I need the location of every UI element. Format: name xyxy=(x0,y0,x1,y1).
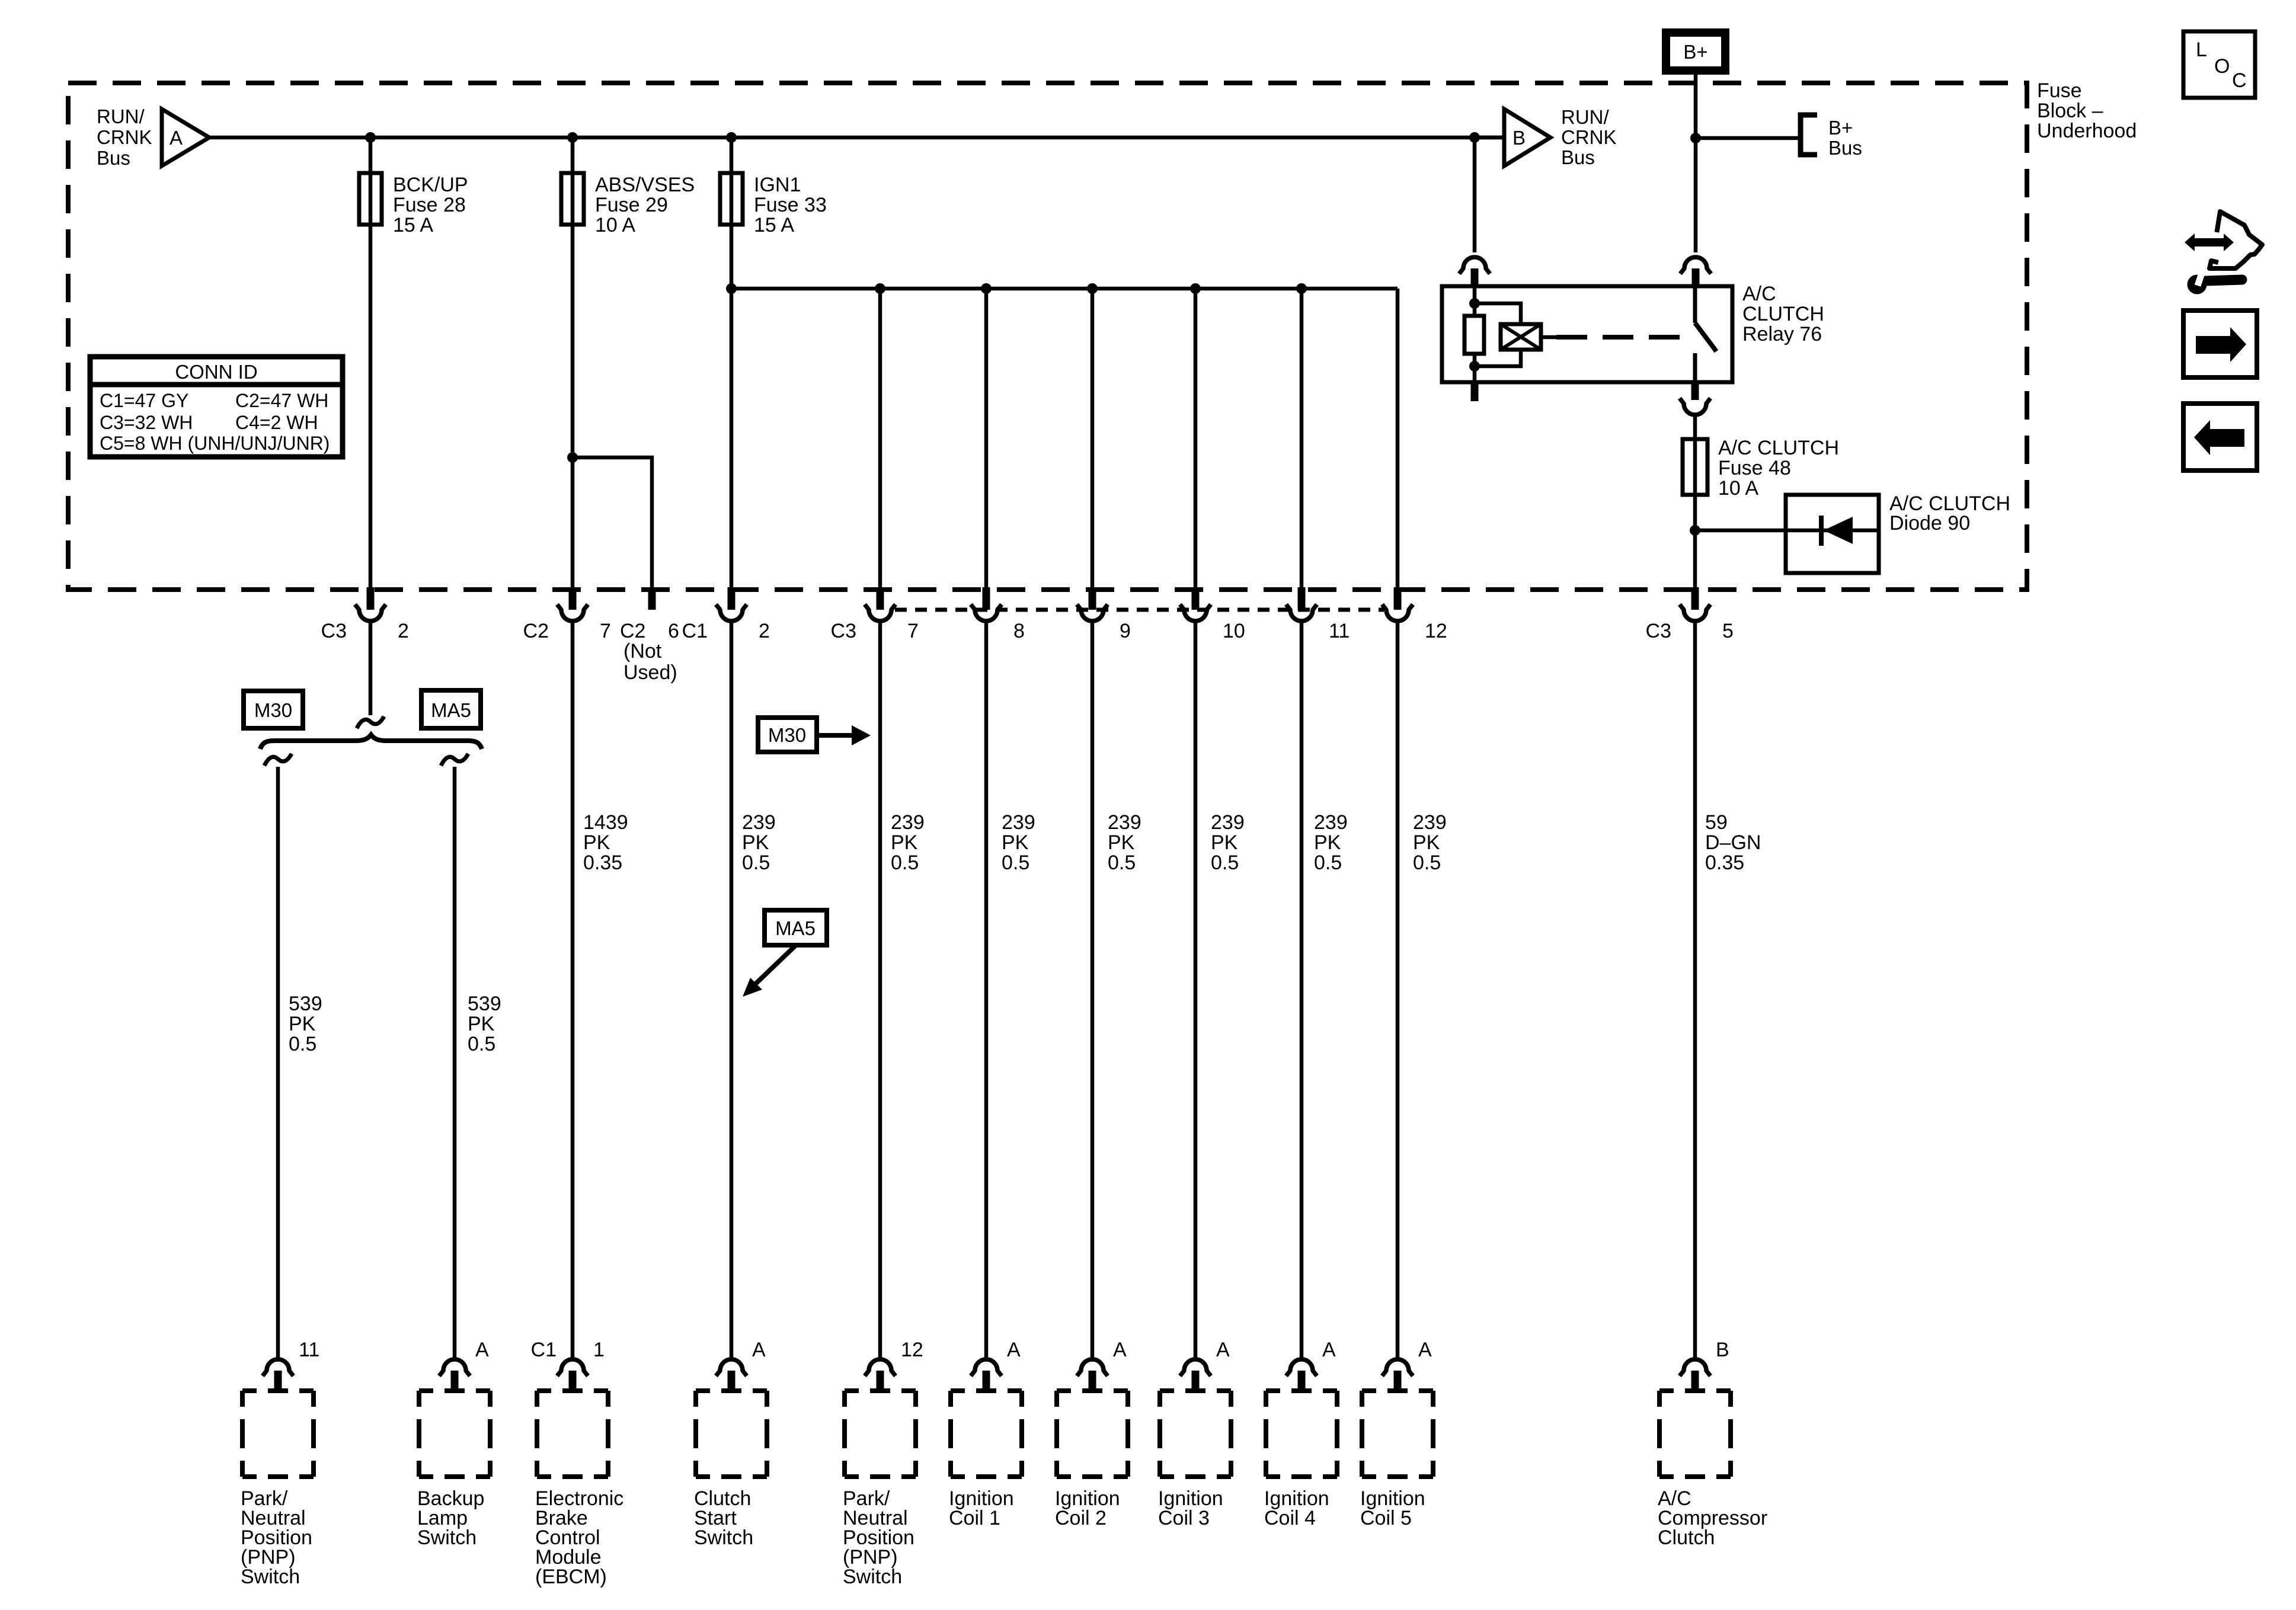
svg-text:O: O xyxy=(2214,55,2230,78)
svg-text:A: A xyxy=(752,1339,766,1361)
harness tag MA5 (left) xyxy=(421,690,481,728)
connector bus: C3 dashed link pins 7-12 xyxy=(895,608,1384,612)
svg-text:10 A: 10 A xyxy=(1718,477,1758,500)
connector C3-7 at fuse block edge xyxy=(831,587,919,642)
component: Ignition Coil 3 (pin A) xyxy=(1158,1339,1231,1529)
connector pin 12 at fuse block edge xyxy=(1382,587,1447,642)
node B: RUN/CRNK Bus tag (triangle B) xyxy=(1475,106,1617,168)
wire break: left branch xyxy=(264,754,292,766)
svg-text:L: L xyxy=(2196,39,2207,61)
svg-text:Coil 2: Coil 2 xyxy=(1055,1507,1107,1529)
svg-text:7: 7 xyxy=(907,620,919,642)
connector pin 11 at fuse block edge xyxy=(1286,587,1350,642)
fuse block underhood dashed outline xyxy=(68,83,2027,590)
wire label 1439 PK 0.35 xyxy=(583,811,628,874)
svg-text:PK: PK xyxy=(289,1013,316,1035)
svg-text:Switch: Switch xyxy=(241,1566,300,1588)
wire 239 PK drop at x=1664 xyxy=(984,622,989,1358)
svg-text:B+: B+ xyxy=(1683,41,1707,63)
svg-text:59: 59 xyxy=(1705,811,1728,834)
junction: B+ node xyxy=(1690,133,1701,143)
component: Park/Neutral Position (PNP) Switch (pin 11) xyxy=(241,1339,319,1588)
svg-text:0.5: 0.5 xyxy=(891,852,919,874)
svg-text:539: 539 xyxy=(468,993,501,1015)
junction: main bus at IGN1 xyxy=(726,132,737,143)
wire: sub-bus drop to connector pin at x=2017 xyxy=(1194,289,1198,590)
harness tag MA5 with arrow xyxy=(743,910,827,997)
svg-text:15 A: 15 A xyxy=(754,214,794,236)
wire 239 PK drop at x=1843 xyxy=(1091,622,1095,1358)
svg-text:A: A xyxy=(170,127,183,149)
svg-text:Switch: Switch xyxy=(843,1566,902,1588)
connector C2-6 at fuse block edge xyxy=(620,587,679,642)
harness tag M30 with arrow xyxy=(758,718,871,752)
svg-text:ABS/VSES: ABS/VSES xyxy=(595,174,695,196)
wire 1439 PK to EBCM xyxy=(571,622,575,1358)
component: Backup Lamp Switch (pin A) xyxy=(417,1339,490,1549)
wire: ignition coil sub-bus xyxy=(731,287,1398,291)
wire: branch to diode 90 xyxy=(1695,529,1879,533)
svg-text:Switch: Switch xyxy=(417,1526,477,1549)
svg-text:Coil 1: Coil 1 xyxy=(949,1507,1000,1529)
svg-text:PK: PK xyxy=(1314,831,1341,854)
svg-text:8: 8 xyxy=(1013,620,1025,642)
svg-text:Block –: Block – xyxy=(2037,100,2103,122)
wire 59 D-GN to A/C compressor clutch xyxy=(1693,622,1697,1358)
power: B+ Bus tap xyxy=(1801,115,1862,159)
svg-text:MA5: MA5 xyxy=(431,699,471,721)
wire: branch to not-used pin C2-6 xyxy=(573,457,652,590)
wire 539 PK to backup lamp switch xyxy=(453,767,457,1358)
svg-text:Relay 76: Relay 76 xyxy=(1742,323,1822,345)
svg-text:A: A xyxy=(1007,1339,1021,1361)
wire: sub-bus drop to connector pin at x=1485 xyxy=(878,289,882,590)
svg-text:0.5: 0.5 xyxy=(1108,852,1136,874)
svg-text:2: 2 xyxy=(759,620,770,642)
svg-text:PK: PK xyxy=(1108,831,1135,854)
wire: ABS/VSES fuse column to connector C2-7 xyxy=(571,137,575,590)
svg-text:12: 12 xyxy=(901,1339,923,1361)
wire: sub-bus drop to connector pin at x=2196 xyxy=(1300,289,1304,590)
svg-text:IGN1: IGN1 xyxy=(754,174,801,196)
svg-text:C2=47 WH: C2=47 WH xyxy=(235,390,328,411)
wire label 539 PK 0.5 xyxy=(289,993,322,1055)
svg-text:0.5: 0.5 xyxy=(1211,852,1239,874)
junction: sub-bus tap x=1485 xyxy=(875,283,885,294)
junction: main bus at BCK/UP xyxy=(365,132,376,143)
svg-text:CRNK: CRNK xyxy=(97,126,152,148)
svg-text:7: 7 xyxy=(600,620,611,642)
icon: LOC box xyxy=(2183,31,2255,98)
junction: fuse 48 output / diode branch xyxy=(1690,525,1700,536)
junction: sub-bus tap x=2017 xyxy=(1190,283,1201,294)
label: (Not Used) for C2-6 xyxy=(623,640,677,684)
wire: C3-2 to splice brace xyxy=(369,622,373,715)
junction: sub-bus tap x=1843 xyxy=(1087,283,1098,294)
wire 239 PK drop at x=2196 xyxy=(1300,622,1304,1358)
svg-text:11: 11 xyxy=(1329,620,1350,642)
connector pin 8 at fuse block edge xyxy=(971,587,1025,642)
svg-text:A: A xyxy=(1113,1339,1127,1361)
svg-text:Coil 4: Coil 4 xyxy=(1264,1507,1316,1529)
svg-text:239: 239 xyxy=(1314,811,1348,834)
wire: relay output to fuse 48 and C3-5 xyxy=(1693,415,1697,590)
fuse: A/C CLUTCH Fuse 48 10 A xyxy=(1683,437,1839,500)
wire label 239 PK 0.5 xyxy=(1211,811,1245,874)
wire label 239 PK 0.5 xyxy=(1413,811,1447,874)
component: Clutch Start Switch (pin A) xyxy=(694,1339,767,1549)
svg-text:239: 239 xyxy=(1211,811,1245,834)
svg-text:A: A xyxy=(1322,1339,1336,1361)
svg-text:0.5: 0.5 xyxy=(468,1033,495,1055)
wire break above brace xyxy=(357,716,384,728)
svg-text:PK: PK xyxy=(583,831,610,854)
svg-text:C4=2 WH: C4=2 WH xyxy=(235,412,318,433)
svg-text:C2: C2 xyxy=(523,620,549,642)
harness tag M30 (left) xyxy=(244,691,303,728)
svg-text:C: C xyxy=(2232,69,2247,92)
svg-text:C3: C3 xyxy=(831,620,856,642)
svg-text:Fuse 29: Fuse 29 xyxy=(595,194,668,216)
svg-text:239: 239 xyxy=(742,811,776,834)
svg-text:11: 11 xyxy=(299,1339,319,1361)
svg-text:239: 239 xyxy=(1413,811,1447,834)
fuse: BCK/UP Fuse 28 15 A xyxy=(359,173,468,236)
wire: BCK/UP fuse column to connector C3-2 xyxy=(369,137,373,590)
svg-text:A: A xyxy=(1418,1339,1432,1361)
wire label 239 PK 0.5 xyxy=(1314,811,1348,874)
component: Ignition Coil 2 (pin A) xyxy=(1055,1339,1128,1529)
svg-text:B: B xyxy=(1512,127,1526,149)
svg-text:C5=8 WH (UNH/UNJ/UNR): C5=8 WH (UNH/UNJ/UNR) xyxy=(100,433,330,454)
svg-text:PK: PK xyxy=(468,1013,495,1035)
wire label 59 D&#8211;GN 0.35 xyxy=(1705,811,1761,874)
connector pin: relay switch output (arc) xyxy=(1680,382,1710,415)
component: Ignition Coil 1 (pin A) xyxy=(949,1339,1022,1529)
CONN ID table xyxy=(90,357,343,457)
svg-text:(EBCM): (EBCM) xyxy=(535,1566,607,1588)
svg-text:10 A: 10 A xyxy=(595,214,635,236)
wire 539 PK to PNP switch xyxy=(276,767,280,1358)
svg-text:MA5: MA5 xyxy=(775,917,816,939)
svg-text:Bus: Bus xyxy=(97,147,130,169)
svg-text:BCK/UP: BCK/UP xyxy=(393,174,468,196)
wire: B+ node to B+ Bus tap xyxy=(1696,136,1799,140)
component: A/C Compressor Clutch (pin B) xyxy=(1658,1339,1767,1549)
wire: sub-bus drop to connector pin at x=2358 xyxy=(1396,289,1400,590)
wire: sub-bus drop to connector pin at x=1664 xyxy=(984,289,989,590)
svg-text:0.5: 0.5 xyxy=(742,852,770,874)
svg-text:0.35: 0.35 xyxy=(583,852,622,874)
svg-text:Bus: Bus xyxy=(1561,146,1595,168)
svg-text:A: A xyxy=(475,1339,489,1361)
connector pin 10 at fuse block edge xyxy=(1180,587,1245,642)
junction: sub-bus tap x=1664 xyxy=(981,283,992,294)
wire label 239 PK 0.5 xyxy=(1108,811,1141,874)
svg-text:239: 239 xyxy=(891,811,925,834)
svg-text:0.5: 0.5 xyxy=(1314,852,1342,874)
svg-text:Fuse 28: Fuse 28 xyxy=(393,194,466,216)
svg-text:B: B xyxy=(1716,1339,1729,1361)
svg-text:Fuse 48: Fuse 48 xyxy=(1718,457,1791,479)
wire: RUN/CRNK main bus A-to-B xyxy=(209,136,1504,140)
svg-text:6: 6 xyxy=(668,620,679,642)
component: Electronic Brake Control Module (EBCM) (pin 1) xyxy=(531,1339,624,1588)
wire: B+ feed down to relay switch xyxy=(1694,75,1698,252)
fuse: ABS/VSES Fuse 29 10 A xyxy=(561,173,695,236)
svg-text:0.35: 0.35 xyxy=(1705,852,1744,874)
junction: ABS/VSES branch to C2-6 xyxy=(567,452,578,463)
svg-text:C3: C3 xyxy=(321,620,347,642)
svg-text:9: 9 xyxy=(1120,620,1131,642)
svg-text:239: 239 xyxy=(1108,811,1141,834)
connector pin: relay switch feed (arc) xyxy=(1680,257,1711,286)
power: B+ terminal xyxy=(1666,33,1725,71)
wire label 239 PK 0.5 xyxy=(891,811,925,874)
svg-text:5: 5 xyxy=(1722,620,1734,642)
svg-text:RUN/: RUN/ xyxy=(97,105,145,127)
splice brace xyxy=(260,735,482,749)
svg-text:M30: M30 xyxy=(254,699,292,721)
svg-text:Coil 3: Coil 3 xyxy=(1158,1507,1210,1529)
wire: sub-bus drop to connector pin at x=1843 xyxy=(1091,289,1095,590)
svg-text:(Not: (Not xyxy=(623,640,662,662)
connector pin: relay coil feed (arc) xyxy=(1459,257,1490,286)
svg-text:0.5: 0.5 xyxy=(1002,852,1029,874)
wire: IGN1 fuse column to connector C1-2 xyxy=(730,137,734,590)
diode: A/C CLUTCH Diode 90 xyxy=(1786,492,2010,573)
svg-text:539: 539 xyxy=(289,993,322,1015)
wire label 239 PK 0.5 xyxy=(742,811,776,874)
svg-text:PK: PK xyxy=(891,831,918,854)
svg-text:0.5: 0.5 xyxy=(289,1033,316,1055)
svg-text:10: 10 xyxy=(1223,620,1245,642)
connector pin 9 at fuse block edge xyxy=(1077,587,1131,642)
svg-text:Used): Used) xyxy=(623,661,677,684)
icon: arrow box right xyxy=(2183,311,2257,377)
label: Fuse Block - Underhood xyxy=(2037,79,2137,142)
junction: IGN1 column at sub-bus xyxy=(726,283,737,294)
fuse: IGN1 Fuse 33 15 A xyxy=(720,173,827,236)
wire break: right branch xyxy=(441,754,468,766)
svg-text:Diode 90: Diode 90 xyxy=(1889,512,1970,534)
svg-text:RUN/: RUN/ xyxy=(1561,106,1609,128)
svg-text:239: 239 xyxy=(1002,811,1035,834)
svg-text:PK: PK xyxy=(1211,831,1238,854)
svg-text:PK: PK xyxy=(1002,831,1029,854)
component: Park/Neutral Position (PNP) Switch (pin 12) xyxy=(843,1339,923,1588)
component: Ignition Coil 4 (pin A) xyxy=(1264,1339,1337,1529)
svg-text:C1=47 GY: C1=47 GY xyxy=(100,390,188,411)
svg-text:D–GN: D–GN xyxy=(1705,831,1761,854)
connector C3-2 at fuse block edge xyxy=(321,587,409,642)
svg-text:Fuse: Fuse xyxy=(2037,79,2082,102)
connector C3-5 at fuse block edge xyxy=(1646,587,1734,642)
svg-text:PK: PK xyxy=(1413,831,1440,854)
svg-text:C3: C3 xyxy=(1646,620,1671,642)
svg-text:Bus: Bus xyxy=(1828,137,1862,159)
wire 239 PK to clutch start switch xyxy=(730,622,734,1358)
svg-text:A: A xyxy=(1216,1339,1230,1361)
component: Ignition Coil 5 (pin A) xyxy=(1360,1339,1433,1529)
svg-text:C2: C2 xyxy=(620,620,645,642)
junction: main bus at ABS/VSES xyxy=(567,132,578,143)
wire 239 PK drop at x=2358 xyxy=(1396,622,1400,1358)
svg-text:C1: C1 xyxy=(531,1339,557,1361)
connector C2-7 at fuse block edge xyxy=(523,587,611,642)
svg-text:C3=32 WH: C3=32 WH xyxy=(100,412,193,433)
svg-text:CRNK: CRNK xyxy=(1561,126,1617,148)
svg-text:12: 12 xyxy=(1425,620,1447,642)
svg-text:2: 2 xyxy=(398,620,409,642)
svg-text:Coil 5: Coil 5 xyxy=(1360,1507,1412,1529)
wire 239 PK drop at x=2017 xyxy=(1194,622,1198,1358)
svg-text:A/C CLUTCH: A/C CLUTCH xyxy=(1718,437,1839,459)
wire 239 PK drop at x=1485 xyxy=(878,622,882,1358)
svg-text:CLUTCH: CLUTCH xyxy=(1742,303,1824,325)
svg-text:15 A: 15 A xyxy=(393,214,433,236)
node A: RUN/CRNK Bus tag (triangle A) xyxy=(97,105,209,169)
svg-text:Clutch: Clutch xyxy=(1658,1526,1715,1549)
svg-text:CONN ID: CONN ID xyxy=(175,361,257,383)
svg-text:Fuse 33: Fuse 33 xyxy=(754,194,827,216)
connector C1-2 at fuse block edge xyxy=(682,587,770,642)
svg-text:Switch: Switch xyxy=(694,1526,753,1549)
junction: main bus at relay coil feed xyxy=(1469,132,1480,143)
svg-text:0.5: 0.5 xyxy=(1413,852,1441,874)
svg-text:M30: M30 xyxy=(768,724,806,746)
icon: arrow box left xyxy=(2183,404,2257,470)
svg-text:Underhood: Underhood xyxy=(2037,120,2137,142)
wire label 539 PK 0.5 xyxy=(468,993,501,1055)
svg-text:1439: 1439 xyxy=(583,811,628,834)
wire label 239 PK 0.5 xyxy=(1002,811,1035,874)
wire: bus to relay coil pin xyxy=(1473,137,1477,252)
relay: A/C CLUTCH Relay 76 xyxy=(1442,283,1824,401)
svg-text:A/C: A/C xyxy=(1742,283,1776,305)
junction: sub-bus tap x=2196 xyxy=(1296,283,1307,294)
svg-text:1: 1 xyxy=(593,1339,605,1361)
icon: underhood/wrench pictogram xyxy=(2185,212,2262,295)
svg-text:C1: C1 xyxy=(682,620,708,642)
svg-text:B+: B+ xyxy=(1828,117,1853,139)
svg-text:PK: PK xyxy=(742,831,769,854)
